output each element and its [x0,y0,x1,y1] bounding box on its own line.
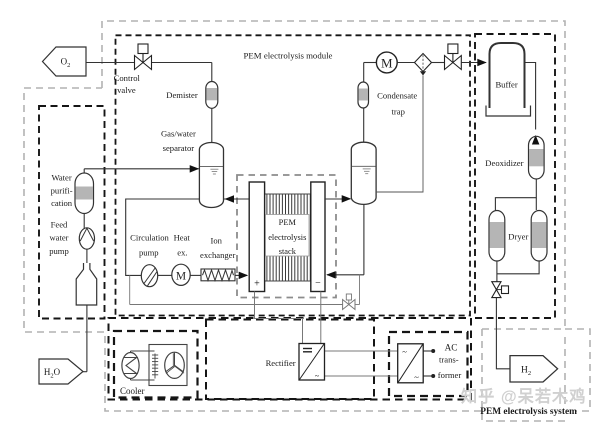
arrowhead into separator right [225,195,235,203]
O2 outlet pentagon [43,47,87,76]
svg-text:M: M [176,271,186,283]
compressor/blower M [376,52,397,73]
svg-text:Rectifier: Rectifier [266,358,296,368]
svg-text:~: ~ [315,372,320,381]
wire: purifier to feed header [83,169,85,173]
wire: deoxidizer to dryer 2 [535,198,537,210]
wire: tank to H2O inlet [86,305,88,372]
stack cathode end plate (-) [311,182,325,292]
svg-text:Buffer: Buffer [495,80,517,90]
wire: condensate separator to trap [363,108,365,142]
arrowhead into buffer [477,59,487,66]
svg-text:purifi-: purifi- [51,186,73,196]
AC transformer box [389,332,468,396]
svg-text:cation: cation [51,198,73,208]
power & cooling section box [109,318,472,400]
svg-text:trap: trap [392,106,405,116]
AC transformer T1 [398,344,424,383]
gas/water separator vessel [199,142,223,207]
svg-text:AC: AC [445,342,458,352]
wire: ion exchanger to stack [235,274,247,276]
wire: drain valve to branch [355,304,360,306]
buffer vessel [486,43,531,116]
wire: valve V4 to H2 outlet [496,298,510,369]
svg-text:知乎 @呆若木鸡: 知乎 @呆若木鸡 [461,387,586,406]
wire: stack anode to separator [224,198,249,200]
wire: pump to tank [86,249,88,263]
hydrogen control valve V2 [445,44,462,70]
cooler fan housing [149,345,187,386]
svg-text:electrolysis: electrolysis [268,233,306,242]
wire: anode to rectifier [255,292,303,344]
svg-text:separator: separator [163,143,195,153]
arrowhead into deoxidizer [532,135,540,145]
PEM electrolysis module box [116,35,471,315]
svg-text:M: M [381,55,393,70]
svg-text:PEM: PEM [279,218,297,227]
water purification vessel [75,173,94,214]
svg-text:Heat: Heat [174,233,191,243]
control valve V1 [135,44,152,70]
svg-text:ex.: ex. [177,248,187,258]
wire: pump to heat exchanger [158,274,173,276]
wire: dryer 2 outlet [497,261,539,274]
H2 outlet pentagon [510,356,558,382]
arrowhead into stack cathode port [326,271,336,279]
svg-text:Dryer: Dryer [508,232,528,242]
wire: H2O connect [83,371,87,373]
svg-text:~: ~ [414,372,419,382]
wire: buffer to deoxidizer [525,63,536,130]
cooler finned element [152,354,158,379]
ion exchanger [201,269,235,281]
demister vessel [206,82,218,109]
svg-text:pump: pump [49,246,69,256]
svg-text:~: ~ [402,347,407,357]
wire: O2 pentagon to control valve [86,62,135,64]
svg-text:former: former [438,370,462,380]
H2O inlet pentagon [39,359,83,384]
rectifier U1 [299,344,325,381]
svg-text:PEM electrolysis system: PEM electrolysis system [480,407,577,417]
wire: filter to valve V2 [432,62,445,64]
cooler condenser coil [122,353,139,379]
wire: drain return to pump suction [130,304,343,306]
wire: control valve to demister riser [152,62,212,64]
svg-text:pump: pump [139,248,159,258]
wire: deoxidizer to dryer 1 [495,179,536,210]
stack label plate [266,215,310,257]
wire: cathode to rectifier [320,292,322,344]
arrowhead into separator left [190,165,200,173]
rectifier box [206,320,374,400]
svg-text:Deoxidizer: Deoxidizer [485,158,523,168]
wire: feed water to separator [84,168,198,170]
svg-text:valve: valve [117,85,136,95]
arrowhead into condensate separator [342,195,352,203]
heat exchanger HX [172,264,190,285]
svg-text:Control: Control [114,73,141,83]
cooler fan [165,352,185,378]
hydrogen outlet valve V4 [492,282,509,298]
svg-text:Gas/water: Gas/water [161,128,196,138]
wire: rectifier-transformer lower [325,375,398,377]
stack anode end plate (+) [249,182,264,292]
wire: filter drain to condensate separator [376,76,423,193]
filter F1 [415,54,432,76]
svg-text:Cooler: Cooler [120,386,145,396]
arrowhead into stack anode port [239,272,249,280]
wire: stack cathode to condensate separator [325,198,351,200]
svg-text:water: water [49,233,68,243]
condensate trap vessel [358,82,369,108]
wire: rectifier-transformer upper [325,350,398,352]
svg-text:−: − [315,278,321,289]
wire: to compressor M [364,62,377,64]
gray dashed hydrogen output sub-boundary [482,329,565,421]
wire: condensate return to stack [327,274,364,276]
circulation pump P2 [141,265,157,287]
feed water tank [76,263,97,305]
cooler connecting pipes [131,351,155,380]
label PEM electrolysis system [480,405,577,418]
wire: purifier to feed pump [83,214,85,229]
svg-text:+: + [254,279,260,290]
svg-text:PEM electrolysis module: PEM electrolysis module [244,50,333,60]
deoxidizer vessel [529,136,545,179]
wire: M to filter [397,62,415,64]
svg-text:exchanger: exchanger [200,250,235,260]
svg-text:Demister: Demister [166,90,198,100]
dryer vessel 1 [489,211,505,262]
water purification module box [39,106,105,319]
feed water pump P1 [79,228,94,249]
wire: demister to separator [211,108,213,143]
svg-text:Feed: Feed [51,220,68,230]
svg-text:Ion: Ion [210,236,222,246]
dryer vessel 2 [531,211,547,262]
svg-text:trans-: trans- [439,354,459,364]
drain valve V3 [343,294,355,310]
wire: heat exchanger to ion exchanger [190,274,201,276]
gas purification module box [475,34,555,318]
cooler box [114,331,198,398]
svg-text:Water: Water [51,173,71,183]
wire: drain branch [359,275,361,305]
wire: trap riser [363,63,365,83]
wire: drain riser to pump suction [129,275,131,304]
PEM electrolysis stack membrane hatch [265,194,311,281]
wire: dryer 1 outlet [496,261,498,282]
condensate separator vessel [351,142,376,204]
wire: separator to circulation pump [126,199,200,275]
svg-text:stack: stack [279,247,297,256]
svg-text:Circulation: Circulation [130,233,169,243]
wire: condensate drain down [363,204,365,274]
wire: down to demister [211,63,213,82]
wire: valve V2 to buffer [461,62,486,64]
svg-text:Condensate: Condensate [377,90,417,100]
stack enclosure (gray dashed) [237,175,336,298]
transformer terminals [423,349,435,378]
